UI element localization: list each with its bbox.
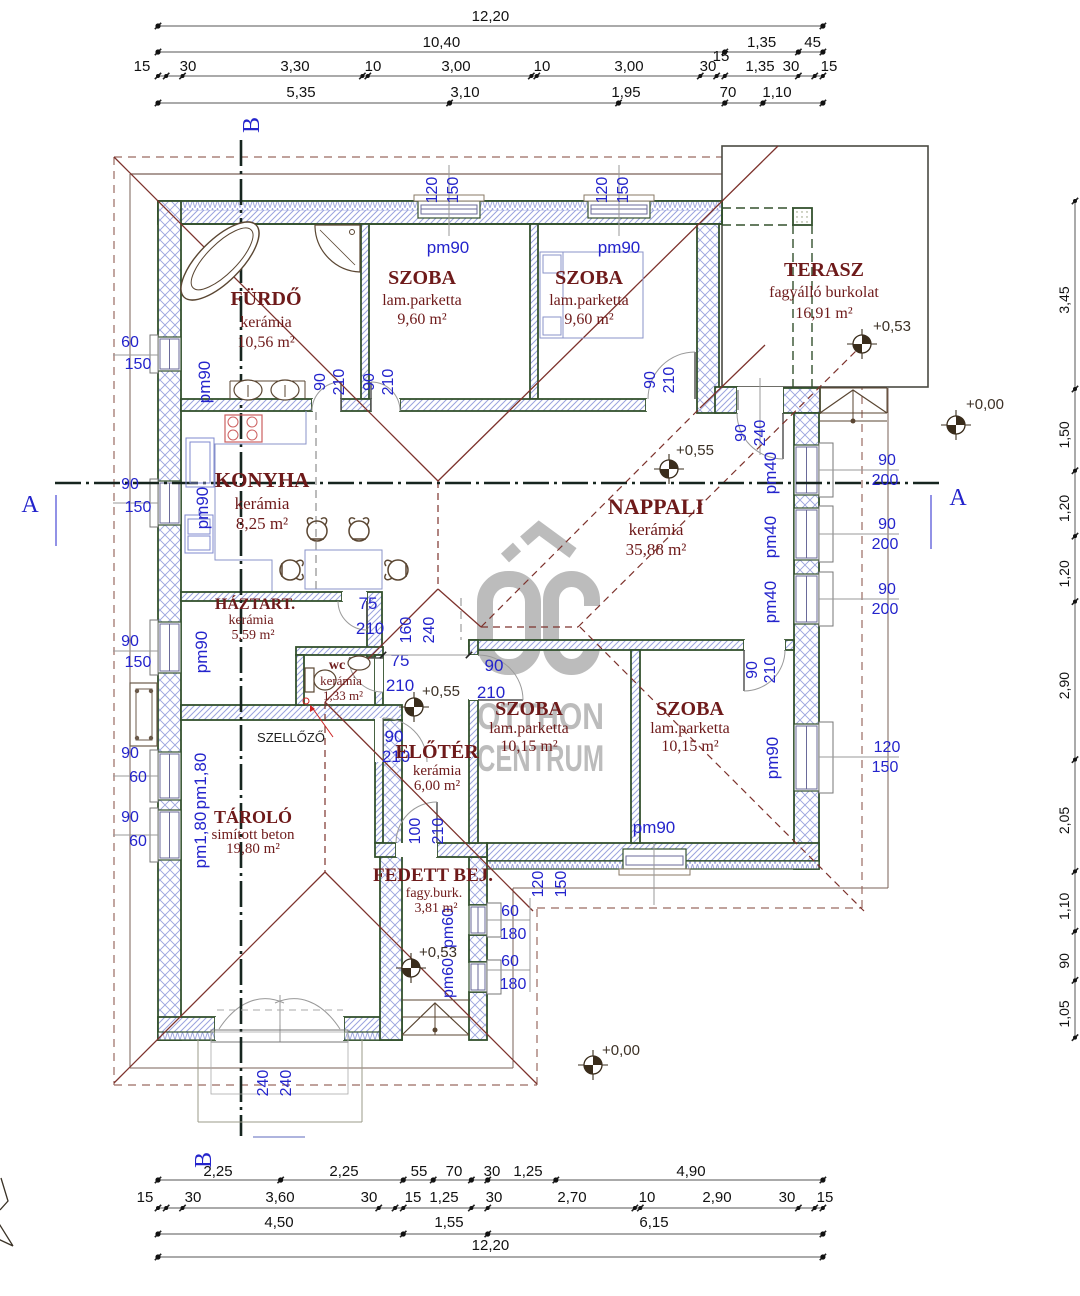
svg-text:pm1,80: pm1,80 <box>191 812 210 869</box>
svg-text:1,20: 1,20 <box>1056 495 1072 522</box>
svg-text:60: 60 <box>501 953 519 970</box>
svg-text:150: 150 <box>445 177 462 204</box>
svg-text:5,59 m²: 5,59 m² <box>231 628 274 643</box>
svg-text:kerámia: kerámia <box>413 763 462 779</box>
svg-text:6,15: 6,15 <box>639 1214 668 1231</box>
svg-text:240: 240 <box>752 420 769 447</box>
svg-text:10: 10 <box>639 1189 656 1206</box>
svg-text:45: 45 <box>804 34 821 51</box>
svg-text:2,70: 2,70 <box>557 1189 586 1206</box>
svg-text:pm90: pm90 <box>763 737 782 780</box>
svg-text:1,50: 1,50 <box>1056 421 1072 448</box>
svg-text:3,81 m²: 3,81 m² <box>414 901 457 916</box>
svg-text:8,25 m²: 8,25 m² <box>236 514 288 533</box>
svg-text:90: 90 <box>744 661 761 679</box>
svg-text:90: 90 <box>485 656 504 675</box>
svg-text:3,30: 3,30 <box>280 58 309 75</box>
svg-text:15: 15 <box>137 1189 154 1206</box>
svg-text:120: 120 <box>424 177 441 204</box>
svg-text:2,90: 2,90 <box>1056 672 1072 699</box>
svg-text:30: 30 <box>361 1189 378 1206</box>
svg-text:30: 30 <box>779 1189 796 1206</box>
svg-text:90: 90 <box>121 809 139 826</box>
svg-text:4,50: 4,50 <box>264 1214 293 1231</box>
svg-text:90: 90 <box>878 581 896 598</box>
svg-text:240: 240 <box>421 617 438 644</box>
svg-text:210: 210 <box>380 369 397 396</box>
svg-text:150: 150 <box>553 871 570 898</box>
svg-text:4,90: 4,90 <box>676 1163 705 1180</box>
svg-text:180: 180 <box>500 926 527 943</box>
svg-text:1,35: 1,35 <box>745 58 774 75</box>
svg-text:75: 75 <box>359 594 378 613</box>
svg-text:90: 90 <box>121 633 139 650</box>
svg-text:1,20: 1,20 <box>1056 560 1072 587</box>
svg-text:35,88 m²: 35,88 m² <box>626 540 687 559</box>
svg-text:SZOBA: SZOBA <box>656 698 724 720</box>
svg-text:1,25: 1,25 <box>513 1163 542 1180</box>
svg-text:fagy.burk.: fagy.burk. <box>406 886 463 901</box>
svg-text:SZELLŐZŐ: SZELLŐZŐ <box>257 730 325 745</box>
svg-text:3,10: 3,10 <box>450 84 479 101</box>
svg-text:150: 150 <box>125 356 152 373</box>
svg-text:160: 160 <box>398 617 415 644</box>
svg-text:9,60 m²: 9,60 m² <box>397 311 446 328</box>
svg-text:+0,53: +0,53 <box>419 944 457 961</box>
svg-text:1,25: 1,25 <box>429 1189 458 1206</box>
svg-text:6,00 m²: 6,00 m² <box>414 778 461 794</box>
svg-text:2,25: 2,25 <box>329 1163 358 1180</box>
svg-text:HÁZTART.: HÁZTART. <box>215 594 295 613</box>
svg-text:15: 15 <box>134 58 151 75</box>
svg-text:KONYHA: KONYHA <box>215 468 310 492</box>
svg-text:60: 60 <box>121 334 139 351</box>
svg-text:30: 30 <box>484 1163 501 1180</box>
svg-text:12,20: 12,20 <box>472 8 510 25</box>
svg-text:kerámia: kerámia <box>235 494 290 513</box>
svg-text:16,91 m²: 16,91 m² <box>795 305 852 322</box>
svg-text:90: 90 <box>361 373 378 391</box>
svg-text:12,20: 12,20 <box>472 1237 510 1254</box>
svg-text:90: 90 <box>642 371 659 389</box>
svg-text:10,56 m²: 10,56 m² <box>237 334 294 351</box>
svg-text:pm60: pm60 <box>440 958 457 998</box>
svg-text:B: B <box>239 117 265 133</box>
svg-text:10,15 m²: 10,15 m² <box>661 738 718 755</box>
svg-text:pm90: pm90 <box>195 361 214 404</box>
svg-text:10: 10 <box>365 58 382 75</box>
svg-text:55: 55 <box>411 1163 428 1180</box>
svg-text:210: 210 <box>331 369 348 396</box>
svg-text:150: 150 <box>872 759 899 776</box>
svg-text:+0,53: +0,53 <box>873 318 911 335</box>
svg-text:A: A <box>21 492 39 518</box>
svg-text:A: A <box>949 485 967 511</box>
svg-text:TÁROLÓ: TÁROLÓ <box>214 806 292 827</box>
svg-text:210: 210 <box>356 619 384 638</box>
svg-text:10,40: 10,40 <box>423 34 461 51</box>
svg-text:SZOBA: SZOBA <box>388 267 456 289</box>
svg-text:15: 15 <box>713 48 730 65</box>
svg-text:wc: wc <box>329 658 345 673</box>
svg-text:200: 200 <box>872 601 899 618</box>
svg-text:kerámia: kerámia <box>320 673 362 688</box>
svg-text:9,60 m²: 9,60 m² <box>564 311 613 328</box>
svg-text:90: 90 <box>733 424 750 442</box>
svg-text:210: 210 <box>386 676 414 695</box>
svg-text:3,00: 3,00 <box>441 58 470 75</box>
svg-text:SZOBA: SZOBA <box>495 698 563 720</box>
svg-text:lam.parketta: lam.parketta <box>489 720 569 737</box>
svg-text:60: 60 <box>129 833 147 850</box>
svg-text:120: 120 <box>874 739 901 756</box>
svg-text:+0,55: +0,55 <box>422 683 460 700</box>
svg-text:70: 70 <box>446 1163 463 1180</box>
svg-text:B: B <box>191 1152 217 1168</box>
svg-text:10: 10 <box>534 58 551 75</box>
svg-text:70: 70 <box>720 84 737 101</box>
svg-text:kerámia: kerámia <box>629 520 684 539</box>
svg-text:150: 150 <box>615 177 632 204</box>
svg-text:30: 30 <box>185 1189 202 1206</box>
svg-text:pm40: pm40 <box>761 452 780 495</box>
svg-text:pm1,80: pm1,80 <box>191 753 210 810</box>
svg-text:15: 15 <box>821 58 838 75</box>
svg-text:200: 200 <box>872 472 899 489</box>
svg-text:pm40: pm40 <box>761 581 780 624</box>
svg-text:90: 90 <box>878 516 896 533</box>
svg-text:120: 120 <box>530 871 547 898</box>
svg-text:1,10: 1,10 <box>762 84 791 101</box>
svg-text:90: 90 <box>312 373 329 391</box>
svg-text:1,10: 1,10 <box>1056 892 1072 919</box>
svg-text:NAPPALI: NAPPALI <box>608 494 704 519</box>
svg-text:+0,55: +0,55 <box>676 442 714 459</box>
svg-text:30: 30 <box>180 58 197 75</box>
svg-text:90: 90 <box>121 745 139 762</box>
svg-text:240: 240 <box>278 1070 295 1097</box>
svg-text:150: 150 <box>125 499 152 516</box>
svg-text:2,05: 2,05 <box>1056 807 1072 834</box>
svg-text:3,45: 3,45 <box>1056 286 1072 313</box>
svg-text:lam.parketta: lam.parketta <box>650 720 730 737</box>
svg-text:10,15 m²: 10,15 m² <box>500 738 557 755</box>
svg-text:pm90: pm90 <box>192 631 211 674</box>
svg-text:1,35: 1,35 <box>747 34 776 51</box>
svg-text:pm40: pm40 <box>761 516 780 559</box>
svg-text:200: 200 <box>872 536 899 553</box>
svg-text:TERASZ: TERASZ <box>784 259 864 281</box>
svg-text:1,55: 1,55 <box>434 1214 463 1231</box>
svg-text:60: 60 <box>501 903 519 920</box>
svg-text:1,95: 1,95 <box>611 84 640 101</box>
svg-text:pm90: pm90 <box>427 238 470 257</box>
svg-text:SZOBA: SZOBA <box>555 267 623 289</box>
svg-text:60: 60 <box>129 769 147 786</box>
svg-text:kerámia: kerámia <box>240 314 292 331</box>
svg-text:15: 15 <box>405 1189 422 1206</box>
svg-text:150: 150 <box>125 654 152 671</box>
svg-text:30: 30 <box>783 58 800 75</box>
svg-text:75: 75 <box>391 651 410 670</box>
svg-text:lam.parketta: lam.parketta <box>549 292 629 309</box>
svg-text:240: 240 <box>255 1070 272 1097</box>
svg-text:lam.parketta: lam.parketta <box>382 292 462 309</box>
svg-text:90: 90 <box>121 476 139 493</box>
svg-text:FÜRDŐ: FÜRDŐ <box>230 286 301 310</box>
svg-text:kerámia: kerámia <box>228 613 274 628</box>
svg-text:+0,00: +0,00 <box>966 396 1004 413</box>
svg-text:fagyálló burkolat: fagyálló burkolat <box>769 284 879 301</box>
svg-text:90: 90 <box>878 452 896 469</box>
svg-text:180: 180 <box>500 976 527 993</box>
svg-text:210: 210 <box>661 367 678 394</box>
svg-text:ELŐTÉR: ELŐTÉR <box>395 739 479 763</box>
svg-text:pm90: pm90 <box>598 238 641 257</box>
svg-text:90: 90 <box>1056 953 1072 969</box>
svg-text:15: 15 <box>817 1189 834 1206</box>
svg-text:3,00: 3,00 <box>614 58 643 75</box>
svg-text:210: 210 <box>430 818 447 845</box>
svg-text:19,80 m²: 19,80 m² <box>226 841 280 857</box>
svg-text:120: 120 <box>594 177 611 204</box>
svg-text:30: 30 <box>486 1189 503 1206</box>
svg-text:5,35: 5,35 <box>286 84 315 101</box>
svg-text:1,05: 1,05 <box>1056 1000 1072 1027</box>
svg-text:pm90: pm90 <box>193 487 212 530</box>
svg-text:3,60: 3,60 <box>265 1189 294 1206</box>
svg-text:+0,00: +0,00 <box>602 1042 640 1059</box>
svg-text:2,90: 2,90 <box>702 1189 731 1206</box>
svg-text:FEDETT BEJ.: FEDETT BEJ. <box>373 865 493 886</box>
svg-text:1,33 m²: 1,33 m² <box>323 688 363 703</box>
svg-text:210: 210 <box>762 657 779 684</box>
svg-text:100: 100 <box>407 818 424 845</box>
svg-text:pm90: pm90 <box>633 818 676 837</box>
